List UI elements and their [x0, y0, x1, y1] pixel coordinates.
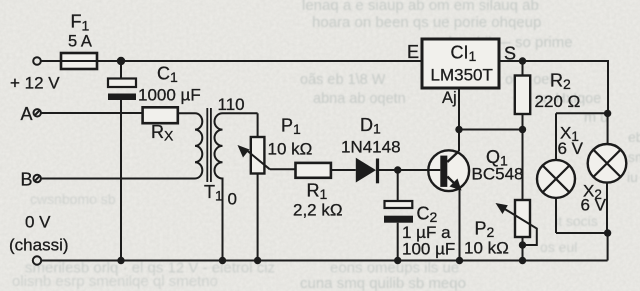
- svg-text:(chassi): (chassi): [9, 236, 69, 255]
- svg-text:E: E: [407, 42, 419, 62]
- svg-text:+ 12 V: + 12 V: [10, 74, 60, 93]
- svg-text:6 V: 6 V: [558, 139, 584, 158]
- svg-text:1000 µF: 1000 µF: [138, 86, 201, 105]
- svg-text:220 Ω: 220 Ω: [535, 92, 581, 111]
- svg-text:Aj: Aj: [442, 89, 457, 107]
- svg-text:100 µF: 100 µF: [402, 240, 455, 259]
- svg-text:2,2 kΩ: 2,2 kΩ: [293, 201, 343, 220]
- svg-text:0 V: 0 V: [25, 213, 51, 232]
- svg-text:LM350T: LM350T: [431, 66, 493, 85]
- svg-text:BC548: BC548: [472, 165, 524, 184]
- svg-text:S: S: [504, 44, 516, 64]
- svg-text:6 V: 6 V: [581, 196, 607, 215]
- svg-text:10 kΩ: 10 kΩ: [464, 239, 509, 258]
- svg-text:110: 110: [218, 95, 245, 114]
- svg-text:5 A: 5 A: [68, 33, 92, 51]
- svg-text:A: A: [21, 104, 33, 124]
- svg-text:10 kΩ: 10 kΩ: [268, 140, 313, 159]
- svg-text:B: B: [21, 170, 33, 190]
- svg-text:1N4148: 1N4148: [341, 138, 401, 157]
- svg-text:0: 0: [228, 190, 237, 209]
